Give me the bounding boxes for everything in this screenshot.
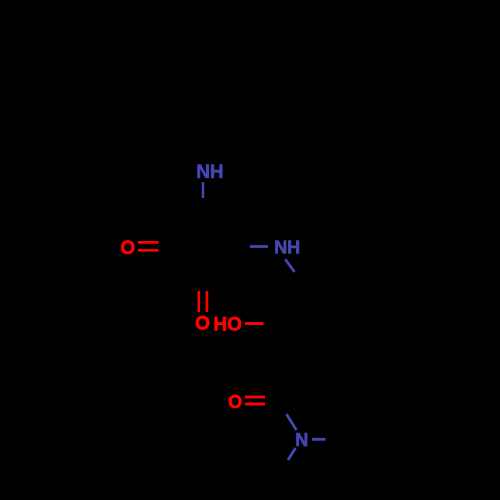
wire O3-C bond (red half) [245,322,264,325]
svg-text:NH: NH [196,162,223,183]
wire N2-CH2 bond (blue half) [285,259,294,272]
svg-text:N: N [295,430,308,450]
svg-text:O: O [120,238,135,259]
wire C=O1 double bond (red half, lower line) [138,249,159,252]
wire N3-CH3 bond right (blue half) [312,438,326,441]
wire C=O4 double bond (red half, lower line) [245,403,265,406]
wire N3-CH3 bond lower-left (blue half) [288,448,296,460]
wire C=O1 double bond (red half, upper line) [138,241,159,244]
wire C-N3 bond (blue half) [286,414,296,430]
svg-text:NH: NH [274,238,300,258]
wire C=O2 double bond (red half, right line) [206,291,209,312]
svg-text:O: O [195,314,210,335]
svg-text:O: O [228,392,242,412]
wire C=O4 double bond (red half, upper line) [245,396,265,399]
svg-text:HO: HO [213,315,242,336]
wire N1-C bond (blue half) [202,182,204,198]
wire C=O2 double bond (red half, left line) [198,291,201,312]
wire C-N2 bond (blue half) [250,245,268,248]
